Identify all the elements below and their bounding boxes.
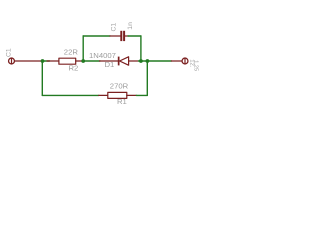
node C junction	[81, 59, 85, 63]
bottom wire right	[136, 94, 147, 96]
resistor R1	[99, 92, 137, 98]
svg-text:R2: R2	[69, 64, 79, 73]
svg-text:270R: 270R	[110, 82, 129, 91]
svg-text:1n: 1n	[127, 22, 134, 30]
pin wire X2	[172, 60, 182, 62]
wire top to C1	[83, 35, 110, 37]
wire corner down to node B	[140, 36, 142, 61]
svg-text:22R: 22R	[64, 47, 79, 56]
wire node A to R2	[43, 60, 50, 62]
node A junction	[41, 59, 45, 63]
wire node C to D1	[83, 60, 100, 62]
wire C1 to corner	[128, 35, 141, 37]
wire node C up	[82, 36, 84, 61]
resistor R2	[47, 58, 83, 64]
wire node D to X2	[147, 60, 171, 62]
bottom wire left	[42, 94, 99, 96]
svg-text:1.25: 1.25	[193, 60, 199, 71]
wire node A down	[41, 61, 43, 95]
pin wire X1	[15, 60, 43, 62]
svg-text:C1: C1	[6, 48, 13, 57]
node B junction	[139, 59, 143, 63]
wire node D down	[146, 61, 148, 95]
wire D1 to node B	[139, 60, 148, 62]
connector X2	[182, 58, 188, 64]
node D junction	[146, 59, 150, 63]
capacitor C1	[110, 31, 128, 41]
svg-text:D1: D1	[105, 60, 115, 69]
svg-text:C1: C1	[111, 23, 118, 32]
connector X1	[9, 58, 15, 64]
diode D1	[100, 57, 139, 66]
svg-text:R1: R1	[117, 97, 127, 106]
svg-text:1N4007: 1N4007	[89, 51, 116, 60]
